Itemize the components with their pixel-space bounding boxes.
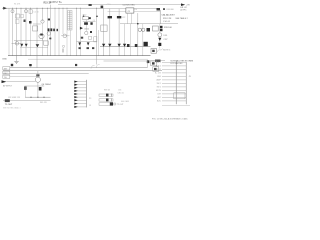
svg-text:R1 47K: R1 47K — [14, 4, 21, 6]
svg-text:NOTE: ALL RES IN OHMS: NOTE: ALL RES IN OHMS — [171, 59, 194, 62]
svg-text:C36: C36 — [118, 89, 121, 91]
wire bus A — [10, 67, 147, 69]
node mid junction — [137, 23, 139, 25]
transformer T1 winding B — [70, 11, 72, 31]
resistor R17 — [36, 74, 39, 76]
svg-text:REC: REC — [4, 73, 9, 75]
lamp DS2 — [142, 28, 145, 31]
resistor R10 box — [88, 36, 91, 39]
capacitor C12 — [81, 37, 83, 39]
diode D11 — [123, 44, 126, 47]
wire bottom H1 — [25, 96, 51, 98]
pin p9 — [77, 106, 87, 108]
svg-text:R31 2.2K: R31 2.2K — [163, 18, 172, 20]
wire vertical V21 — [109, 9, 111, 56]
wire vertical V14 — [66, 8, 68, 56]
svg-text:SW 2: SW 2 — [157, 87, 161, 89]
node K1 a — [83, 15, 85, 17]
inductor L1 — [5, 99, 10, 102]
lamp DS1 — [138, 28, 141, 31]
svg-text:C14 .01: C14 .01 — [163, 21, 171, 23]
svg-text:+9V: +9V — [186, 5, 190, 7]
diode D9 — [108, 44, 111, 47]
resistor R8 body — [62, 49, 64, 53]
svg-text:MUTE: MUTE — [156, 90, 162, 92]
wire vertical V23 — [124, 24, 126, 56]
resistor R13 — [157, 8, 161, 11]
ground rail — [8, 55, 151, 57]
wire bus C — [3, 73, 89, 75]
wire cross H — [12, 42, 22, 44]
transistor Q3 — [41, 20, 44, 23]
connector J1 right rail — [185, 62, 187, 104]
capacitor C1 — [24, 20, 26, 23]
capacitor C7 — [49, 38, 51, 40]
wire flag curve — [157, 49, 163, 53]
capacitor C31 — [147, 60, 150, 63]
flag F3 — [151, 61, 157, 66]
diode D14 — [158, 38, 161, 41]
wire C24 — [24, 86, 26, 97]
diode D10 — [118, 44, 121, 47]
node tick — [163, 8, 165, 10]
pin j12 — [162, 100, 186, 102]
node dot b — [37, 97, 38, 98]
capacitor C10 — [84, 22, 88, 25]
connector J1 left rail — [175, 60, 177, 104]
wire diode row — [20, 46, 48, 48]
capacitor C25 — [39, 87, 42, 91]
wire vertical V5 — [25, 8, 27, 56]
resistor R5 box — [29, 10, 32, 13]
capacitor C15 — [92, 47, 94, 49]
svg-text:C31 50MF 15V: C31 50MF 15V — [8, 97, 21, 99]
svg-text:NOTE 5: NOTE 5 — [163, 49, 171, 51]
resistor R15 — [144, 42, 148, 46]
svg-text:SEE NOTES 2 AND 4: SEE NOTES 2 AND 4 — [3, 107, 20, 110]
wire vertical V6 — [30, 8, 32, 56]
diode D2 — [20, 44, 23, 47]
resistor R2 box — [16, 14, 20, 18]
diode D1 — [3, 7, 7, 10]
wire Q7 emitter — [37, 82, 39, 97]
diode D15 — [158, 43, 161, 46]
wire vertical V16 — [79, 8, 81, 56]
transformer T1 hatches — [68, 13, 72, 29]
wire chain link — [159, 24, 161, 33]
wire stub V — [36, 56, 38, 68]
transformer T1 winding A — [68, 11, 70, 31]
svg-text:CLOCK OSC: CLOCK OSC — [123, 5, 136, 7]
wire vertical V1 — [8, 8, 10, 56]
svg-text:600 OHM: 600 OHM — [121, 101, 129, 103]
wire J1 bottom — [162, 105, 190, 107]
svg-text:AUX 2: AUX 2 — [156, 65, 161, 68]
node tick L2 — [110, 94, 112, 97]
wire input line 4 — [10, 75, 37, 77]
lamp DS0 — [15, 42, 19, 46]
terminal T1 box — [3, 67, 10, 70]
wire vertical V10 — [50, 5, 52, 56]
wire bus B — [3, 70, 162, 72]
capacitor C4 — [48, 28, 50, 31]
resistor R7 box — [44, 41, 49, 45]
diode D8 — [102, 44, 105, 47]
diode D12 — [127, 44, 130, 47]
inductor L2 winding — [99, 94, 113, 96]
node dot a — [30, 97, 31, 98]
svg-text:P3: P3 — [89, 98, 91, 100]
diode D13 — [135, 44, 138, 47]
wire Q4 emitter down — [42, 39, 44, 56]
svg-text:C20: C20 — [107, 4, 110, 6]
inductor L4 winding — [99, 103, 113, 106]
wire osc out 2 — [134, 11, 160, 13]
resistor R6 box — [33, 26, 38, 31]
diode D5 — [80, 27, 83, 30]
resistor R14 box — [101, 25, 107, 31]
svg-text:C22: C22 — [122, 17, 125, 19]
wire vertical V17 — [85, 20, 87, 32]
wire osc in 2 — [108, 10, 126, 12]
wire vertical V3 — [16, 8, 18, 56]
capacitor C6 — [53, 29, 55, 32]
svg-text:L4 RFC: L4 RFC — [180, 10, 187, 12]
wire vertical V13 — [62, 8, 64, 34]
op-amp U1 box — [126, 8, 134, 13]
transistor Q5 — [47, 32, 51, 36]
diode D3 — [25, 44, 28, 47]
pin p5 — [77, 93, 87, 95]
lamp DS3 — [158, 33, 162, 37]
svg-text:R19 1K: R19 1K — [44, 2, 52, 4]
wire vertical V2 — [12, 8, 14, 56]
transistor Q6 — [85, 31, 88, 34]
svg-text:R41 470: R41 470 — [40, 102, 47, 104]
resistor R9 — [90, 31, 92, 33]
wire vertical V22 — [118, 9, 120, 56]
capacitor C2 — [29, 21, 32, 24]
diode D7 — [87, 42, 90, 45]
wire osc in — [104, 8, 126, 10]
capacitor C8 — [89, 17, 91, 19]
svg-text:FIG. 12 WD-300-A SCHEMATIC D: FIG. 12 WD-300-A SCHEMATIC DIAG. — [152, 117, 188, 120]
wire right mid — [150, 60, 165, 62]
wire C29 stub — [29, 66, 31, 68]
capacitor C18 — [147, 28, 151, 32]
resistor R16 — [155, 60, 161, 63]
capacitor C17 — [117, 16, 121, 18]
capacitor C16 — [108, 16, 112, 18]
svg-text:SUPPLY B+: SUPPLY B+ — [50, 2, 63, 4]
node tick L3 — [110, 98, 112, 101]
pin p3 — [77, 87, 87, 89]
svg-text:B+ 12V: B+ 12V — [155, 73, 162, 75]
svg-text:SPKR: SPKR — [156, 69, 162, 71]
wire vertical V27 — [159, 10, 161, 24]
pin j2 — [162, 65, 186, 67]
diode D6 — [78, 42, 81, 45]
capacitor C11 — [90, 22, 92, 25]
wire vertical V9 — [47, 8, 49, 56]
wire mid bus — [120, 23, 178, 25]
wire osc out — [134, 8, 157, 10]
wire Q7 collector — [37, 71, 39, 77]
node input arrow — [2, 80, 7, 83]
node dot c — [43, 97, 44, 98]
lamp DS4 — [62, 45, 64, 47]
wire curve hook B — [96, 65, 99, 68]
wire vertical V11 — [54, 8, 56, 56]
capacitor C14 — [87, 47, 90, 49]
wire lower rail — [28, 58, 148, 60]
flag F2 — [151, 49, 157, 54]
node supply arrowhead — [181, 3, 185, 6]
pin j8 — [162, 86, 186, 88]
pin p4 — [77, 90, 87, 92]
wire vertical V26 — [142, 24, 144, 56]
svg-text:C35 .05: C35 .05 — [118, 93, 124, 95]
svg-text:SW 1: SW 1 — [157, 83, 161, 85]
wire diode bus — [100, 46, 151, 48]
capacitor C19 — [160, 26, 163, 28]
wire curve hook A — [91, 66, 95, 69]
wire bottom H2 — [3, 100, 51, 102]
resistor R11 box — [94, 37, 97, 42]
wire vertical V18 — [96, 8, 98, 64]
wire vertical V8 — [42, 8, 44, 21]
svg-text:T1 OUT: T1 OUT — [5, 104, 13, 106]
flag F1 — [153, 26, 159, 31]
terminal T2 box — [3, 71, 10, 74]
wire vertical V20 — [103, 9, 105, 56]
transistor Q2 — [24, 10, 27, 13]
wire U1 leg a — [127, 13, 129, 24]
svg-text:C9: C9 — [93, 20, 95, 22]
connector P2 vertical — [86, 80, 88, 108]
resistor R4 box — [16, 20, 20, 24]
svg-text:R35 680: R35 680 — [167, 9, 174, 11]
pin j1 — [162, 61, 186, 63]
svg-text:Q6 2N404: Q6 2N404 — [42, 84, 52, 86]
wire Q6 emitter — [77, 40, 97, 42]
wire box top — [104, 61, 148, 68]
wire Q3 base — [33, 23, 41, 25]
core L3 — [106, 98, 109, 101]
svg-text:J3: J3 — [89, 105, 91, 107]
svg-text:R22: R22 — [83, 14, 86, 16]
svg-text:C2 10: C2 10 — [34, 12, 39, 14]
wire input — [6, 81, 35, 83]
wire U1 leg b — [131, 13, 133, 24]
svg-text:LAMP: LAMP — [156, 79, 162, 82]
terminal T3 box — [3, 75, 10, 78]
pin j11 — [162, 96, 186, 98]
wire Q7 out — [24, 85, 44, 87]
wire T1 down — [70, 30, 72, 56]
svg-text:AUX 1: AUX 1 — [156, 61, 161, 64]
svg-text:CR12: CR12 — [84, 28, 89, 30]
svg-text:CAL ADJUST: CAL ADJUST — [162, 14, 176, 17]
pin p6 — [77, 96, 87, 98]
flag F4 — [153, 67, 159, 71]
wire supply rail — [58, 4, 181, 6]
pin p7 — [77, 99, 87, 101]
svg-text:R33 10K: R33 10K — [164, 27, 172, 29]
diode D4 — [36, 44, 40, 47]
pin j9 — [162, 89, 186, 91]
transistor Q7 — [35, 77, 40, 82]
lamp DS5 — [114, 103, 116, 105]
pin j6 — [162, 79, 186, 81]
svg-text:Y1: Y1 — [134, 9, 136, 11]
wire vertical V7 — [36, 8, 38, 56]
capacitor C6b — [57, 29, 59, 31]
capacitor C24 — [24, 87, 26, 90]
resistor R12 — [101, 6, 104, 9]
wire vertical V25 — [137, 13, 139, 56]
transistor Q4 — [39, 34, 44, 39]
wire Q3 down — [42, 23, 44, 40]
ground — [16, 56, 18, 62]
svg-text:T2 OUT: T2 OUT — [117, 104, 124, 106]
wire Q4 base — [14, 39, 44, 41]
resistor R3 box — [21, 15, 24, 18]
capacitor C23 — [11, 64, 13, 66]
svg-text:GND: GND — [2, 59, 7, 61]
wire vertical V19 — [97, 30, 99, 56]
svg-text:TEL: TEL — [4, 77, 7, 79]
node K1 b — [96, 15, 98, 17]
capacitor C21 — [160, 29, 163, 31]
pin j7 — [162, 82, 186, 84]
relay K1 box — [83, 17, 89, 20]
wire vertical V4 — [20, 8, 22, 56]
capacitor C3 — [48, 19, 50, 21]
pin j5 — [162, 75, 186, 77]
core L2 — [106, 94, 109, 97]
battery B1 — [63, 34, 67, 38]
pin p1 — [77, 81, 87, 83]
pin j10 — [162, 93, 186, 95]
pin j4 — [162, 72, 186, 74]
capacitor C29 — [29, 64, 32, 66]
inductor L3 winding — [99, 99, 113, 101]
node supply junction — [89, 4, 92, 6]
pin j3 — [162, 68, 186, 70]
svg-text:SEE TABLE 2: SEE TABLE 2 — [175, 17, 188, 20]
wire top rail left — [2, 7, 104, 9]
core L4 — [110, 102, 113, 105]
rect J1 block — [174, 93, 185, 99]
wire vertical V24 — [130, 24, 132, 56]
pin p2 — [77, 84, 87, 86]
svg-text:GND: GND — [157, 76, 162, 78]
wire vertical V15 — [76, 8, 78, 56]
node rail junctions — [12, 8, 13, 9]
capacitor C5 — [50, 28, 52, 31]
wire K1 out — [83, 21, 96, 23]
transistor Q1 — [11, 10, 14, 13]
svg-text:AF INPUT: AF INPUT — [3, 85, 13, 88]
capacitor C13 — [79, 47, 81, 49]
pin p8 — [77, 103, 87, 105]
capacitor C30 — [75, 64, 77, 66]
svg-text:R39 1K: R39 1K — [104, 89, 111, 91]
wire vertical V12 — [58, 8, 60, 56]
